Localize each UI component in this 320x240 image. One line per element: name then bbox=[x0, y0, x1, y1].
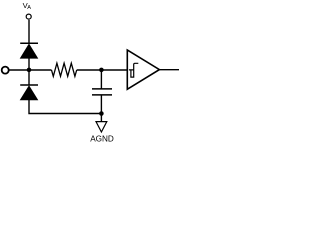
svg-text:AGND: AGND bbox=[90, 134, 114, 143]
wire node A to resistor R1 bbox=[29, 69, 52, 71]
wire D2 anode down and along bottom to ground node bbox=[29, 100, 101, 114]
resistor R1 bbox=[52, 63, 77, 76]
node B (RC junction) bbox=[99, 68, 104, 73]
wire ground node to AGND symbol bbox=[100, 114, 102, 122]
diode D2 (clamp to AGND) bbox=[20, 85, 38, 100]
wire input terminal to node A bbox=[9, 69, 29, 71]
ground AGND bbox=[90, 122, 114, 144]
wire node A to diode D2 cathode bbox=[28, 70, 30, 85]
diode D1 (clamp to VA) bbox=[20, 43, 38, 58]
svg-text:A: A bbox=[27, 5, 31, 11]
wire node B to capacitor C1 bbox=[100, 70, 102, 89]
node C (ground junction) bbox=[99, 111, 104, 116]
comparator U1 bbox=[127, 50, 159, 89]
wire comparator output bbox=[159, 69, 179, 71]
input terminal bbox=[2, 67, 9, 74]
wire capacitor C1 to ground node bbox=[100, 95, 102, 113]
wire resistor R1 to comparator input bbox=[77, 69, 127, 71]
wire VA terminal to diode D1 cathode bbox=[28, 20, 30, 43]
node A (input junction) bbox=[27, 68, 32, 73]
wire D1 anode to input node bbox=[28, 58, 30, 70]
schmitt hysteresis symbol inside U1 bbox=[129, 63, 138, 77]
terminal VA bbox=[26, 14, 31, 19]
net label VA bbox=[23, 1, 32, 11]
capacitor C1 bbox=[92, 89, 112, 95]
